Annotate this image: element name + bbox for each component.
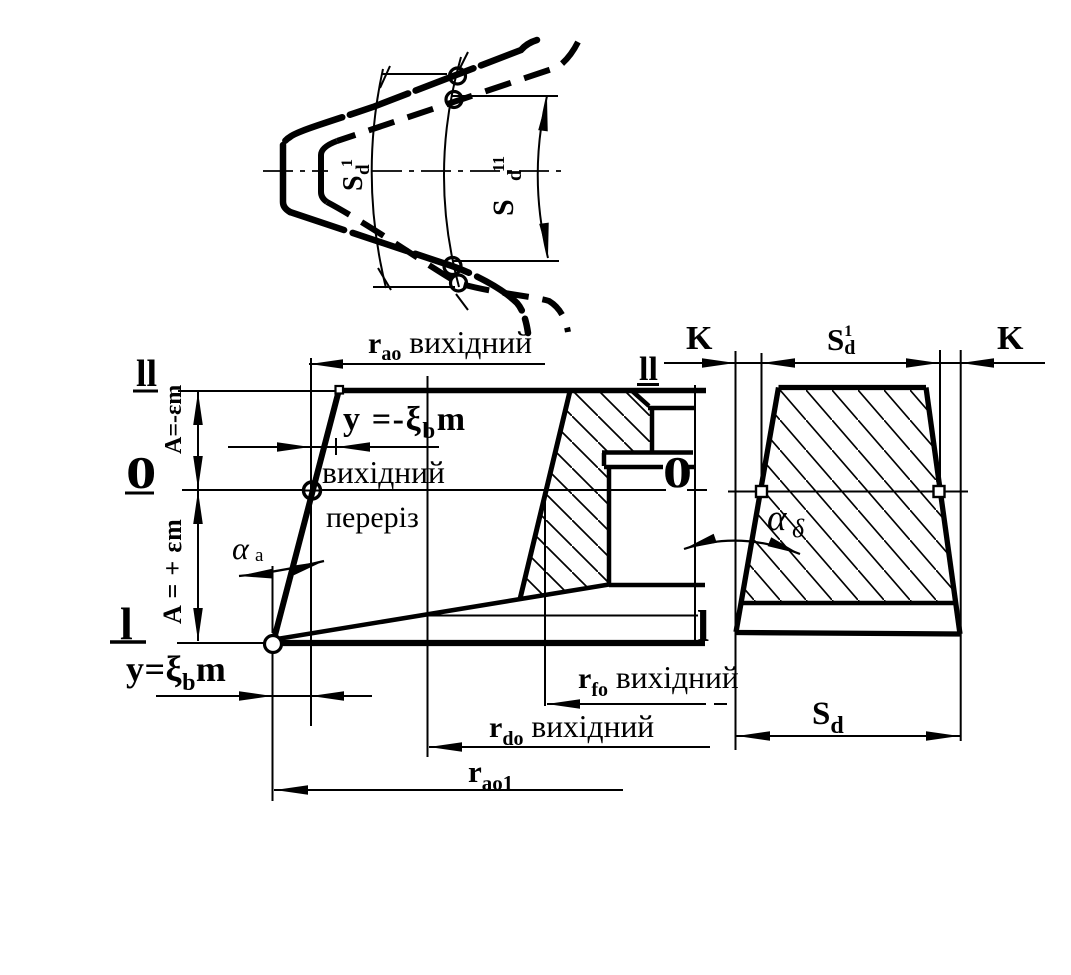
svg-text:ll: ll (639, 351, 658, 388)
svg-text:l: l (697, 602, 709, 651)
svg-text:S: S (338, 175, 369, 191)
svg-text:K: K (686, 320, 713, 357)
svg-text:0: 0 (126, 447, 156, 498)
svg-text:K: K (997, 320, 1024, 357)
svg-text:α: α (232, 530, 250, 566)
svg-text:A=-εm: A=-εm (161, 385, 187, 454)
svg-text:S: S (487, 199, 520, 216)
svg-text:y=ξbm: y=ξbm (126, 649, 226, 696)
svg-text:δ: δ (792, 514, 805, 543)
svg-text:1: 1 (339, 159, 356, 167)
svg-text:вихідний: вихідний (322, 455, 445, 490)
svg-text:S1d: S1d (827, 322, 855, 359)
svg-text:ll: ll (136, 353, 157, 395)
svg-text:a: a (255, 545, 264, 566)
svg-text:α: α (767, 498, 788, 539)
svg-text:11: 11 (489, 156, 508, 172)
svg-text:0: 0 (663, 449, 692, 498)
svg-text:переріз: переріз (326, 501, 419, 534)
svg-text:d: d (353, 164, 374, 175)
svg-text:y =-ξbm: y =-ξbm (343, 401, 467, 443)
svg-text:A = + εm: A = + εm (158, 518, 187, 624)
